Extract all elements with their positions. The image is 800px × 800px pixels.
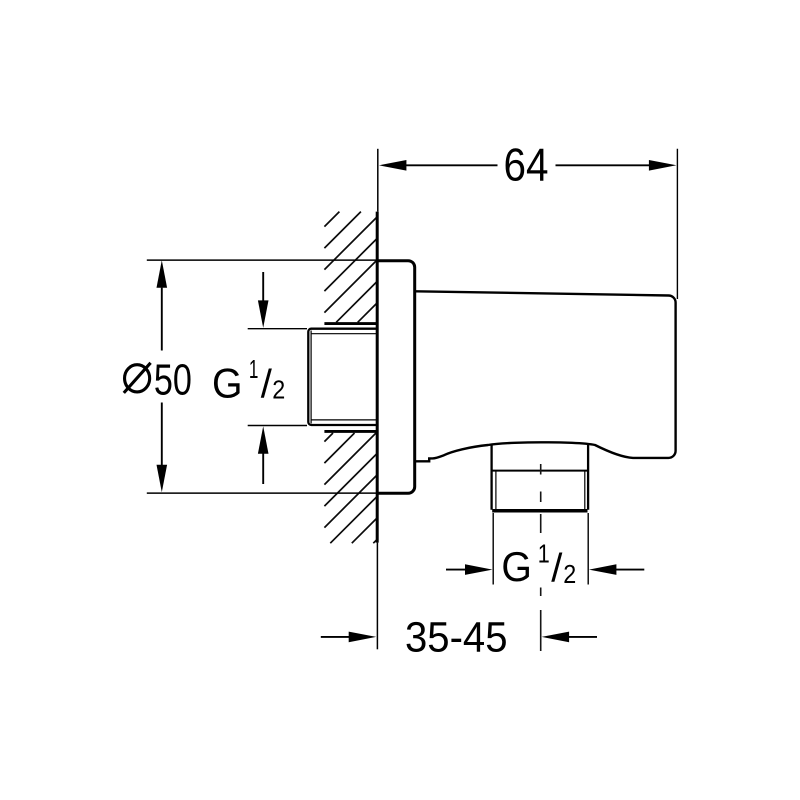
svg-text:2: 2 [272, 375, 285, 405]
dim G1/2 bottom: left extension line [492, 513, 494, 585]
wall line (thick wall face) [376, 212, 379, 543]
inlet fitting thread root top [311, 333, 377, 335]
inlet small dim: lower arrow tail [262, 454, 264, 485]
dim G1/2 bottom: right arrowhead (left) [589, 564, 617, 575]
outlet collar/thread step [492, 470, 588, 472]
svg-text:35-45: 35-45 [405, 614, 508, 662]
svg-text:64: 64 [504, 139, 549, 191]
inlet fitting thread root bottom [311, 419, 377, 421]
dim Ø50: bottom extension line [147, 492, 376, 494]
dim 64: right arrowhead [649, 160, 677, 171]
inlet small dim: upper arrow tail [262, 272, 264, 301]
dim G1/2 bottom: right extension line [587, 513, 589, 585]
wall line (extension line thin bottom) [376, 543, 378, 650]
dim 64: dimension line left segment [404, 164, 498, 166]
dim Ø50: dimension line upper segment [161, 288, 163, 351]
dim Ø50: text diameter symbol circle [125, 365, 150, 392]
svg-text:1: 1 [249, 356, 259, 384]
inlet small dim: top extension line [248, 328, 307, 330]
dim Ø50: dimension line lower segment [161, 403, 163, 466]
wall hatching band A (above inlet fitting) [324, 212, 377, 323]
svg-text:1: 1 [538, 540, 550, 568]
escutcheon flange [377, 261, 415, 494]
outlet collar right edge [587, 444, 589, 510]
dim Ø50: diameter symbol slash [124, 363, 151, 393]
dim G1/2 bottom: left arrowhead (right) [465, 564, 493, 575]
wall hatching band B (below inlet fitting) [324, 433, 377, 543]
inlet small dim: upper arrowhead (down) [258, 300, 269, 328]
inlet fitting chamfer edge [310, 331, 312, 424]
wall hole top edge [324, 322, 377, 325]
svg-text:G: G [501, 543, 532, 590]
inlet fitting G1/2 outer [308, 329, 377, 425]
svg-text:/: / [551, 547, 563, 591]
wall line (extension line thin top) [377, 149, 379, 212]
dim 35-45: right arrowhead (left) [542, 632, 570, 643]
dim 35-45: left arrowhead (right) [349, 632, 377, 643]
dim Ø50: top arrowhead [157, 260, 168, 288]
svg-text:/: / [261, 362, 273, 406]
dim Ø50: top extension line [147, 259, 376, 261]
dim 35-45: right line [568, 636, 597, 638]
dim 35-45: left line [321, 636, 350, 638]
dim Ø50: bottom arrowhead [157, 465, 168, 493]
dim 64: left arrowhead [379, 160, 407, 171]
dim G1/2 bottom: right line [615, 569, 644, 571]
svg-text:G: G [212, 359, 243, 406]
inlet small dim: lower arrowhead (up) [258, 426, 269, 454]
outlet thread bottom edge thick [492, 509, 587, 513]
outlet thread root right [584, 472, 586, 510]
svg-text:50: 50 [154, 356, 192, 404]
outlet collar left edge [490, 444, 492, 510]
wall hole bottom edge [324, 430, 377, 433]
body outline [416, 291, 676, 461]
outlet thread root left [495, 472, 497, 510]
dim G1/2 bottom: left line [446, 569, 467, 571]
centerline of outlet (dashed) [540, 464, 542, 651]
inlet small dim: bottom extension line [248, 425, 307, 427]
svg-text:2: 2 [563, 559, 576, 589]
dim 64: right extension line [676, 149, 678, 299]
dim 64: dimension line right segment [556, 164, 651, 166]
